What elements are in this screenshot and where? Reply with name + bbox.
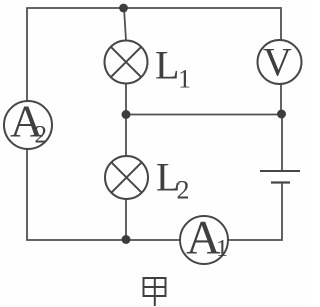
svg-text:1: 1: [216, 236, 228, 262]
wire L1 to middle junction: [125, 84, 127, 116]
wire right (V bottom to junction to battery top): [280, 84, 282, 114]
wire middle vertical: top dot to L1: [124, 8, 126, 41]
svg-text:1: 1: [178, 65, 191, 94]
lamp L2: [105, 156, 148, 199]
voltmeter V: [258, 40, 302, 85]
svg-text:V: V: [263, 40, 292, 85]
wire top (node from top junction across): [27, 8, 281, 40]
wire bottom right (A1 to battery corner): [228, 184, 282, 240]
wire left branch lower: [26, 149, 28, 240]
battery BT: long plate: [260, 170, 300, 172]
ammeter A1: [180, 212, 228, 265]
battery BT: short plate: [271, 181, 290, 183]
lamp L1: [105, 41, 148, 84]
wire middle junction to L2: [125, 115, 127, 156]
wire middle horizontal (junction to junction): [126, 114, 282, 116]
node middle junction: [122, 110, 131, 119]
node top junction: [119, 4, 128, 13]
node right junction: [277, 110, 286, 119]
svg-text:L: L: [155, 43, 179, 88]
svg-text:2: 2: [177, 176, 190, 205]
svg-text:2: 2: [35, 122, 48, 149]
node bottom junction: [122, 235, 131, 244]
wire bottom left: [27, 239, 180, 241]
wire left branch upper: [26, 8, 28, 101]
label caption 甲 (drawn): [144, 277, 166, 306]
ammeter A2: [4, 96, 52, 150]
wire L2 to bottom junction: [125, 199, 127, 239]
